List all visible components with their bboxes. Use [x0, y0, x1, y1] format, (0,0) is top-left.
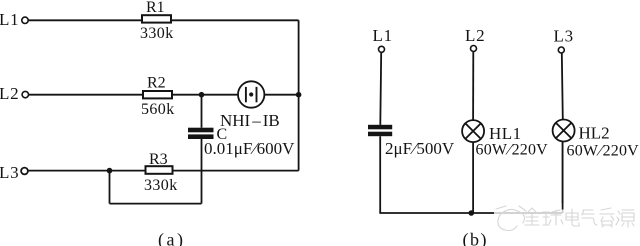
svg-text:L2: L2 — [0, 84, 19, 103]
svg-text:L3: L3 — [554, 27, 574, 46]
svg-text:60W∕220V: 60W∕220V — [476, 142, 549, 159]
svg-text:L2: L2 — [465, 26, 485, 45]
svg-text:HL1: HL1 — [489, 124, 522, 143]
svg-text:L1: L1 — [0, 10, 19, 29]
svg-text:0.01μF∕600V: 0.01μF∕600V — [204, 139, 295, 158]
svg-text:330k: 330k — [140, 25, 174, 42]
svg-text:R3: R3 — [149, 151, 168, 168]
svg-text:(b): (b) — [463, 230, 487, 246]
svg-text:330k: 330k — [144, 177, 178, 194]
svg-text:HL2: HL2 — [579, 124, 610, 143]
svg-text:2μF∕500V: 2μF∕500V — [385, 139, 455, 158]
svg-text:L3: L3 — [0, 163, 19, 182]
svg-text:60W∕220V: 60W∕220V — [567, 143, 640, 160]
svg-text:NHI–IB: NHI–IB — [220, 111, 280, 130]
svg-text:(a): (a) — [158, 230, 183, 246]
svg-text:L1: L1 — [373, 26, 393, 45]
svg-text:R2: R2 — [147, 75, 166, 92]
svg-text:R1: R1 — [146, 0, 165, 16]
svg-text:560k: 560k — [141, 101, 175, 118]
